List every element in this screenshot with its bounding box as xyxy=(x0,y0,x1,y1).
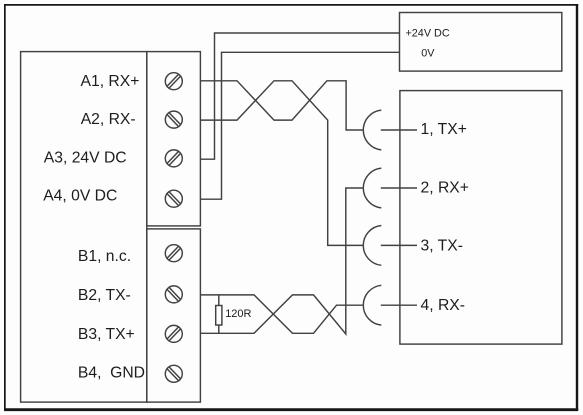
connector socket 1 xyxy=(363,110,381,150)
svg-text:+24V DC: +24V DC xyxy=(406,27,450,39)
svg-text:B1, n.c.: B1, n.c. xyxy=(78,248,131,265)
terminal screw B3 xyxy=(165,325,182,342)
svg-text:4, RX-: 4, RX- xyxy=(421,297,465,314)
svg-text:0V: 0V xyxy=(421,47,435,59)
terminal screw B2 xyxy=(165,286,182,303)
wire B3 to RX+ (twisted pair) xyxy=(200,188,363,334)
svg-text:A4, 0V DC: A4, 0V DC xyxy=(43,187,117,204)
terminal block label box xyxy=(21,52,147,403)
device box xyxy=(400,91,562,345)
pin wire 2 xyxy=(381,187,417,189)
svg-text:B4, GND: B4, GND xyxy=(78,364,145,381)
svg-text:B3, TX+: B3, TX+ xyxy=(78,326,135,343)
wire A4 to 0V xyxy=(200,52,399,199)
terminal strip A (screws A1-A4) xyxy=(147,52,201,226)
terminal screw A2 xyxy=(165,111,182,128)
pin wire 1 xyxy=(381,129,417,131)
resistor R leads xyxy=(218,295,220,333)
svg-text:120R: 120R xyxy=(225,308,251,320)
svg-text:1, TX+: 1, TX+ xyxy=(421,121,467,138)
svg-text:2, RX+: 2, RX+ xyxy=(421,179,469,196)
wire A1 to TX+ (twisted pair) xyxy=(200,81,363,130)
terminal screw A4 xyxy=(165,190,182,207)
connector socket 4 xyxy=(363,285,381,325)
connector socket 2 xyxy=(363,168,381,208)
wire A2 to TX- (twisted pair) xyxy=(200,81,363,246)
terminal screw B4 xyxy=(165,365,182,382)
svg-text:B2, TX-: B2, TX- xyxy=(78,287,131,304)
terminal screw A3 xyxy=(165,150,182,167)
wire A3 to +24V DC xyxy=(200,33,399,159)
power supply box xyxy=(400,13,562,72)
svg-text:3, TX-: 3, TX- xyxy=(421,238,463,255)
svg-text:A3, 24V DC: A3, 24V DC xyxy=(44,149,127,166)
pin wire 3 xyxy=(381,244,417,246)
terminal strip B (screws B1-B4) xyxy=(147,229,201,402)
connector socket 3 xyxy=(363,226,381,266)
terminal screw B1 xyxy=(165,245,182,262)
wire B2 to RX- (twisted pair) xyxy=(200,295,362,333)
svg-text:A1, RX+: A1, RX+ xyxy=(81,73,140,90)
svg-text:A2, RX-: A2, RX- xyxy=(81,111,136,128)
resistor R 120R body xyxy=(216,306,222,326)
pin wire 4 xyxy=(381,304,417,306)
terminal screw A1 xyxy=(165,73,182,90)
